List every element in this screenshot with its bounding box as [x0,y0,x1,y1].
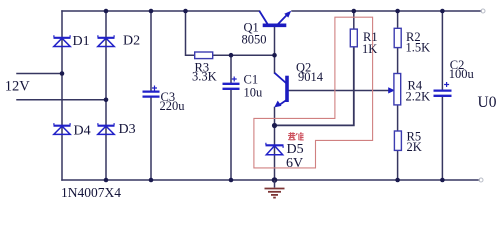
node top rail / R1 [352,9,357,14]
wire 12V upper input lead [17,73,62,75]
node Q1 base / R3 [272,53,277,58]
svg-text:8050: 8050 [242,33,267,47]
diode D2 [98,35,115,46]
wire R2 to R4 [397,48,399,74]
wire 12V lower input lead [17,99,106,101]
node bottom rail / C1 [229,178,234,183]
svg-text:1K: 1K [362,42,377,56]
capacitor C2 [434,82,452,96]
zener diode D5 [266,143,284,155]
transistor Q2 [274,73,287,108]
wire C2 lower lead to ground rail [441,96,443,180]
svg-text:6V: 6V [286,156,303,171]
wire Q2 emitter drop [274,108,276,126]
ground [265,180,285,198]
node 12V upper / D1 column [60,71,65,76]
wire R4 to R5 [397,105,399,131]
wire bottom ground rail [62,179,479,181]
wire left bridge column D1/D4 [61,11,63,180]
annotation red callout outline [254,17,373,168]
diode D1 [54,35,71,46]
wire emitter node to R1 bottom [275,47,354,126]
resistor R2 [394,28,401,47]
svg-text:D1: D1 [73,34,90,49]
node 12V lower / D2 column [104,98,109,103]
node R3-C1 [229,53,234,58]
resistor R3 [195,52,213,59]
wire R2 top stub [397,11,399,27]
svg-text:1N4007X4: 1N4007X4 [61,185,121,200]
diode D4 [54,123,71,134]
node top rail / D2 column [104,9,109,14]
wire C1 lower lead to ground rail [230,89,232,180]
svg-text:2K: 2K [407,140,422,154]
svg-text:D2: D2 [123,34,140,49]
terminal output negative [479,178,483,182]
wire top rail right segment [292,10,481,12]
wire C1 upper stub [230,55,232,83]
svg-text:3.3K: 3.3K [192,70,217,84]
wire R3 output to Q1 base node [213,54,275,56]
wire Q2 base feedback line [289,90,389,92]
node bottom rail / C3 [149,178,154,183]
svg-text:1.5K: 1.5K [406,40,431,54]
node bottom rail / C2 [440,178,445,183]
capacitor C3 [143,86,160,97]
svg-text:D4: D4 [74,124,91,139]
svg-text:220u: 220u [160,99,186,113]
svg-text:U0: U0 [478,94,497,111]
capacitor C1 [223,77,240,89]
wire R5 to ground rail [397,150,399,180]
wire C3 lower lead to ground rail [150,97,152,180]
wire second bridge column D2/D3 [105,11,107,180]
wire C3 riser to top rail [150,11,152,91]
wire D5 column emitter node to ground rail [274,126,276,180]
svg-text:D3: D3 [119,122,136,137]
node top rail / R2 [395,9,400,14]
terminal output positive [481,9,485,13]
node bottom rail / D3 column [104,178,109,183]
label jizhun reference text (red CJK) [288,132,304,140]
node top rail / C2 [440,9,445,14]
R4 wiper arrow [388,87,395,93]
svg-text:10u: 10u [244,85,264,99]
diode D3 [98,123,115,134]
node top rail / C3 [149,9,154,14]
resistor R1 [350,29,357,47]
resistor R5 [394,131,401,150]
wire top rail left segment [62,10,259,12]
svg-text:100u: 100u [449,67,475,81]
svg-text:D5: D5 [287,142,304,157]
svg-text:9014: 9014 [298,70,324,84]
node top rail / R3 [183,9,188,14]
wire Q1 base riser [274,27,276,73]
svg-text:12V: 12V [5,79,31,95]
resistor R4 [394,74,401,105]
node bottom rail / ground [272,177,278,183]
wire R3 riser from top rail [186,11,195,55]
svg-text:2.2K: 2.2K [406,90,431,104]
node bottom rail / R5 [395,178,400,183]
node Q2 emitter / R1 / D5 [272,123,277,128]
wire C2 upper stub [441,11,443,90]
transistor Q1 [259,11,291,25]
wire R1 top stub [353,11,355,29]
